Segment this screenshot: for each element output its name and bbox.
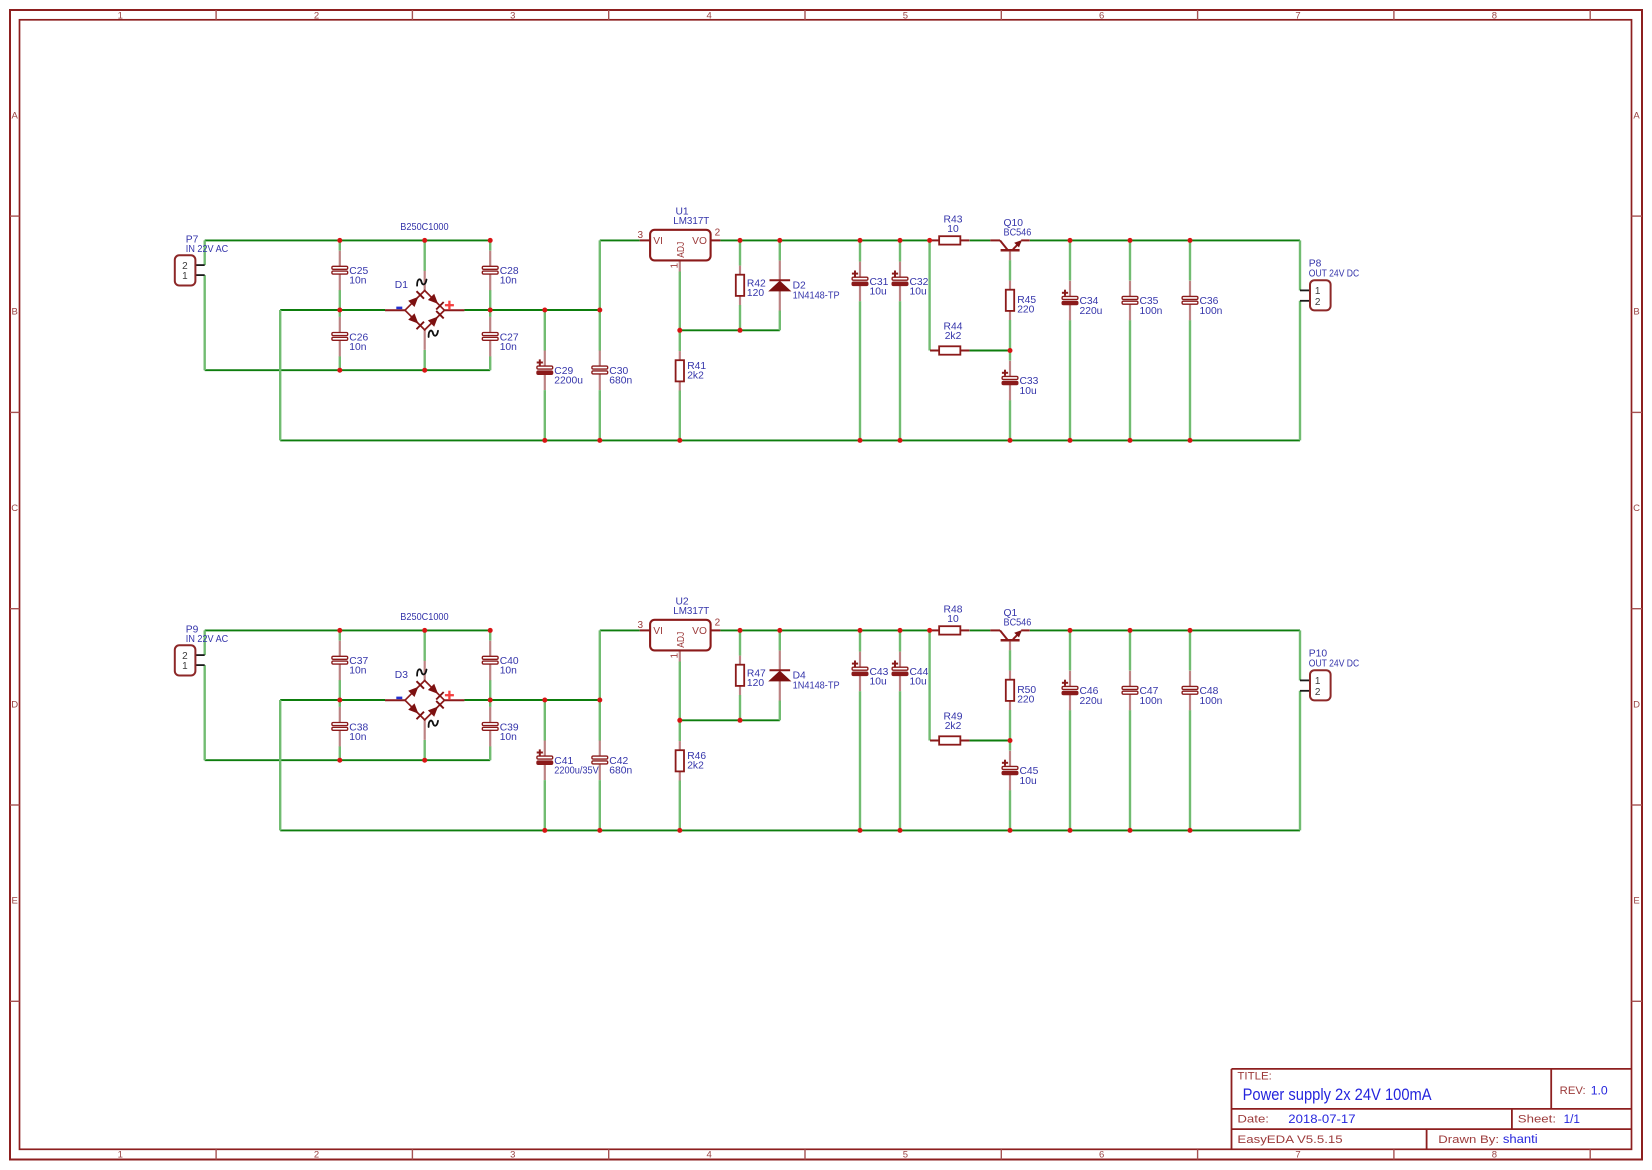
symbol D1 AC squiggle bottom (429, 331, 438, 337)
resistor R49 (930, 736, 969, 744)
wire P9 pin2 riser (203, 630, 205, 655)
wire R49 branch riser (928, 630, 930, 740)
wire C35 bottom lead (1129, 320, 1131, 440)
transistor Q10 (NPN BC546) (990, 240, 1029, 260)
svg-text:EasyEDA V5.5.15: EasyEDA V5.5.15 (1237, 1134, 1342, 1146)
label C48 name/value (1200, 686, 1223, 707)
wire C39 bottom lead (489, 746, 491, 760)
label C36 name/value (1200, 296, 1223, 317)
wire P10 pin1 drop (1299, 630, 1301, 680)
svg-text:D: D (11, 699, 18, 710)
svg-text:1: 1 (669, 263, 680, 269)
svg-text:100n: 100n (1200, 306, 1223, 317)
label D1 minus sign (396, 307, 402, 310)
junction on VO rail at (929.6,630.4) (927, 628, 932, 633)
wire P7 pin2 riser (203, 240, 205, 265)
svg-text:100n: 100n (1140, 696, 1163, 707)
capacitor C35 (1122, 281, 1138, 321)
capacitor C34 (electrolytic) (1062, 281, 1078, 321)
capacitor C28 (482, 251, 498, 291)
wire C34 bottom lead (1069, 320, 1071, 440)
capacitor C48 (1182, 671, 1198, 711)
svg-text:10n: 10n (500, 732, 517, 743)
label R50 name/value (1017, 685, 1036, 706)
label R48 name/value (944, 604, 963, 625)
junction on mid rail at (544.8,310.0) (542, 308, 547, 313)
svg-text:680n: 680n (609, 376, 632, 387)
wire C32 bottom lead (899, 301, 901, 440)
junction on VOUT rail at (1190,630.4) (1188, 628, 1193, 633)
svg-text:10n: 10n (349, 732, 366, 743)
label R42 name/value (747, 278, 766, 299)
label C31 name/value (870, 277, 889, 298)
svg-text:5: 5 (903, 1150, 908, 1161)
junction on VO rail at (860,630.4) (858, 628, 863, 633)
junction on GND rail at (1070,440.4) (1068, 438, 1073, 443)
wire BR-minus to GND drop (279, 700, 281, 830)
svg-text:7: 7 (1295, 10, 1300, 21)
junction on ADJ rail at (740,720.3) (738, 718, 743, 723)
svg-text:IN 22V AC: IN 22V AC (186, 244, 229, 255)
junction on VO rail at (929.6,240.4) (927, 238, 932, 243)
capacitor C39 (482, 707, 498, 747)
svg-text:1N4148-TP: 1N4148-TP (793, 290, 840, 301)
wire C37 top lead (339, 630, 341, 640)
wire C35 top lead (1129, 240, 1131, 280)
wire C31 bottom lead (859, 301, 861, 440)
wire C36 top lead (1189, 240, 1191, 280)
svg-text:Power supply 2x 24V 100mA: Power supply 2x 24V 100mA (1243, 1085, 1433, 1104)
wire C27 bottom lead (489, 356, 491, 370)
label R44 name/value (944, 322, 963, 343)
svg-text:REV:: REV: (1560, 1085, 1586, 1097)
wire net GND bottom rail (280, 829, 1300, 831)
wire P8 pin1 drop (1299, 240, 1301, 290)
junction on base node at (1010,350.5) (1008, 348, 1013, 353)
svg-text:10n: 10n (500, 666, 517, 677)
label D1 plus sign (445, 301, 454, 310)
resistor R41 (676, 351, 684, 390)
junction on mid rail at (490.2,700.0) (488, 698, 493, 703)
label C37 name/value (349, 656, 368, 677)
svg-text:1N4148-TP: 1N4148-TP (793, 680, 840, 691)
junction on GND rail at (544.8,830.4) (542, 828, 547, 833)
resistor R43 (930, 236, 969, 244)
junction on VO rail at (779.8,240.4) (777, 238, 782, 243)
svg-text:1: 1 (182, 271, 188, 282)
svg-text:220u: 220u (1080, 306, 1103, 317)
wire C44 top lead (899, 630, 901, 651)
svg-text:2: 2 (314, 1150, 319, 1161)
junction on GND rail at (1010,830.4) (1008, 828, 1013, 833)
svg-text:8: 8 (1492, 1150, 1497, 1161)
svg-text:VI: VI (653, 626, 663, 637)
wire net VREG R48 to Q1 collector (970, 629, 991, 631)
capacitor C30 (592, 351, 608, 391)
connector P9 pin 2 stub (195, 654, 204, 656)
svg-text:D1: D1 (395, 280, 408, 291)
svg-text:A: A (12, 111, 19, 122)
wire net VRAW mid rail right (D3 + to C41/C42) (464, 699, 600, 701)
wire D3 bottom AC lead (424, 740, 426, 760)
label D3 minus sign (396, 697, 402, 700)
wire C45 bottom lead (1009, 790, 1011, 830)
wire C25 top lead (339, 240, 341, 250)
capacitor C29 (electrolytic) (537, 351, 553, 391)
wire R42 top lead (739, 240, 741, 265)
wire P9 pin1 drop (203, 665, 205, 760)
wire net VRAW link to U2 VI (600, 629, 640, 631)
connector P9 pin 1 stub (195, 664, 204, 666)
wire base node to C33 (1009, 351, 1011, 361)
junction on GND rail at (599.8,830.4) (597, 828, 602, 833)
wire C25/C26 mid link (339, 290, 341, 317)
svg-text:C: C (1633, 503, 1640, 514)
wire C40 top lead (489, 630, 491, 640)
label D3 plus sign (445, 691, 454, 700)
svg-text:2: 2 (1315, 297, 1321, 308)
junction on GND rail at (679.8,830.4) (677, 828, 682, 833)
wire Q1 base to R50 (1009, 650, 1011, 671)
wire P10 pin2 to GND (1299, 691, 1301, 831)
svg-text:220: 220 (1017, 695, 1034, 706)
wire net base divider R49 right link (970, 740, 1011, 742)
wire C28 top lead (489, 240, 491, 250)
wire net VREG VO rail (U1 VO to R43) (720, 239, 929, 241)
label C39 name/value (500, 722, 519, 743)
connector P10 pin 1 stub (1300, 679, 1310, 681)
symbol D1 AC squiggle top (417, 279, 426, 285)
connector P8 pin 1 stub (1300, 289, 1310, 291)
wire C37/C38 mid link (339, 680, 341, 707)
wire Q10 base to R45 (1009, 260, 1011, 281)
svg-text:3: 3 (510, 10, 515, 21)
border row tick marks (10, 216, 1642, 1001)
junction on VOUT rail at (1070,240.4) (1068, 238, 1073, 243)
connector P8 pin 2 stub (1300, 300, 1310, 302)
resistor R50 (1006, 671, 1014, 710)
label C30 name/value (609, 366, 632, 387)
svg-text:Sheet:: Sheet: (1518, 1114, 1556, 1126)
capacitor C40 (482, 641, 498, 681)
svg-text:1/1: 1/1 (1564, 1112, 1581, 1126)
resistor R42 (736, 266, 744, 305)
label R49 name/value (944, 712, 963, 733)
wire D4 top lead (779, 630, 781, 650)
svg-text:10u: 10u (1020, 386, 1037, 397)
wire C29 top lead (544, 310, 546, 351)
wire R42 bottom lead (739, 305, 741, 330)
svg-text:1: 1 (118, 1150, 123, 1161)
capacitor C45 (electrolytic) (1002, 751, 1018, 791)
svg-text:10n: 10n (500, 276, 517, 287)
connector P10 body (1310, 670, 1331, 700)
wire C40/C39 mid link (489, 680, 491, 707)
svg-text:10u: 10u (870, 677, 887, 688)
junction on lower-left rail at (339.8,760.2) (337, 758, 342, 763)
junction on mid rail at (599.8,310.0) (597, 308, 602, 313)
junction on GND rail at (1010,440.4) (1008, 438, 1013, 443)
connector P9 body (175, 645, 196, 675)
svg-text:7: 7 (1295, 1150, 1300, 1161)
svg-text:D: D (1633, 699, 1640, 710)
junction on VO rail at (900,240.4) (898, 238, 903, 243)
svg-text:2k2: 2k2 (687, 371, 704, 382)
wire C36 bottom lead (1189, 320, 1191, 440)
junction on GND rail at (1130,440.4) (1128, 438, 1133, 443)
svg-text:1: 1 (1315, 286, 1321, 297)
wire R41 top lead (679, 330, 681, 351)
junction on VOUT rail at (1130,630.4) (1128, 628, 1133, 633)
label C35 name/value (1140, 296, 1163, 317)
capacitor C33 (electrolytic) (1002, 361, 1018, 401)
wire R41 bottom lead (679, 390, 681, 440)
wire net AC1 top rail (P7 pin2 to bridge/C25/C28) (205, 239, 491, 241)
svg-text:5: 5 (903, 10, 908, 21)
wire net ADJ rail (U1 ADJ to R42/D2) (680, 329, 780, 331)
svg-text:10n: 10n (349, 276, 366, 287)
wire net BR-minus mid rail left (D1 - side) (280, 309, 385, 311)
junction on AC1 rail at (424.7,630.4) (422, 628, 427, 633)
wire net AC2 lower-left rail (P7 pin1 to bridge/C26/C27) (205, 369, 491, 371)
junction on base node at (1010,740.5) (1008, 738, 1013, 743)
svg-text:Date:: Date: (1237, 1114, 1269, 1126)
wire net VOUT Q10 emitter rail to P8 (1030, 239, 1300, 241)
svg-text:10n: 10n (349, 342, 366, 353)
svg-text:1: 1 (669, 653, 680, 659)
wire C28/C27 mid link (489, 290, 491, 317)
wire C32 top lead (899, 240, 901, 261)
capacitor C42 (592, 741, 608, 781)
junction on GND rail at (1070,830.4) (1068, 828, 1073, 833)
junction on mid rail at (339.8,700.0) (337, 698, 342, 703)
junction on VO rail at (900,630.4) (898, 628, 903, 633)
resistor R44 (930, 346, 969, 354)
svg-text:1: 1 (118, 10, 123, 21)
regulator U2 LM317T body and pins (640, 620, 721, 662)
svg-text:VO: VO (692, 236, 707, 247)
svg-text:B250C1000: B250C1000 (400, 612, 449, 623)
svg-text:E: E (1633, 896, 1639, 907)
label D2 name/value (793, 281, 840, 302)
wire D2 bottom lead (779, 311, 781, 331)
capacitor C41 (electrolytic) (537, 741, 553, 781)
wire base node to C45 (1009, 741, 1011, 751)
wire net VREG VO rail (U2 VO to R48) (720, 629, 929, 631)
wire C48 top lead (1189, 630, 1191, 670)
regulator U1 LM317T body and pins (640, 230, 721, 272)
junction on AC1 rail at (490.2,630.4) (488, 628, 493, 633)
capacitor C27 (482, 317, 498, 357)
title block grid lines (1232, 1069, 1632, 1149)
svg-text:100n: 100n (1140, 306, 1163, 317)
svg-text:2: 2 (715, 228, 721, 239)
label R46 name/value (687, 751, 706, 772)
resistor R46 (676, 741, 684, 780)
wire R45 bottom to base node (1009, 320, 1011, 351)
svg-text:B: B (1633, 307, 1639, 318)
label R43 name/value (944, 214, 963, 235)
wire C41 bottom lead (544, 780, 546, 830)
junction on GND rail at (544.8,440.4) (542, 438, 547, 443)
svg-text:120: 120 (747, 288, 764, 299)
svg-text:2k2: 2k2 (687, 761, 704, 772)
svg-text:C: C (11, 503, 18, 514)
wire net VOUT Q1 emitter rail to P10 (1030, 629, 1300, 631)
junction on mid rail at (599.8,700.0) (597, 698, 602, 703)
transistor Q1 (NPN BC546) (990, 630, 1029, 650)
wire D1 top AC lead (424, 240, 426, 271)
wire R47 top lead (739, 630, 741, 655)
svg-text:1: 1 (1315, 676, 1321, 687)
wire net ADJ rail (U2 ADJ to R47/D4) (680, 719, 780, 721)
svg-text:10n: 10n (349, 666, 366, 677)
symbol D3 AC squiggle top (417, 669, 426, 675)
label C33 name/value (1020, 376, 1039, 397)
label C29 name/value (554, 366, 583, 387)
label C45 name/value (1020, 766, 1039, 787)
svg-text:OUT 24V DC: OUT 24V DC (1309, 658, 1360, 669)
label C26 name/value (349, 332, 368, 353)
wire C41 top lead (544, 700, 546, 741)
junction on GND rail at (1130,830.4) (1128, 828, 1133, 833)
junction on ADJ rail at (679.8,720.3) (677, 718, 682, 723)
junction on mid rail at (544.8,700.0) (542, 698, 547, 703)
connector P7 pin 2 stub (195, 264, 204, 266)
wire C46 bottom lead (1069, 710, 1071, 830)
svg-text:shanti: shanti (1503, 1132, 1538, 1146)
label C32 name/value (910, 277, 929, 298)
svg-text:TITLE:: TITLE: (1237, 1070, 1272, 1082)
label C44 name/value (910, 667, 929, 688)
capacitor C31 (electrolytic) (852, 262, 868, 302)
svg-text:A: A (1633, 111, 1640, 122)
wire R46 top lead (679, 720, 681, 741)
junction on AC1 rail at (339.8,240.4) (337, 238, 342, 243)
junction on lower-left rail at (339.8,370.2) (337, 368, 342, 373)
resistor R48 (930, 626, 969, 634)
wire C43 top lead (859, 630, 861, 651)
svg-text:220u: 220u (1080, 696, 1103, 707)
wire C33 bottom lead (1009, 400, 1011, 440)
wire BR-minus to GND drop (279, 310, 281, 440)
wire net AC2 lower-left rail (P9 pin1 to bridge/C38/C39) (205, 759, 491, 761)
svg-text:10: 10 (947, 224, 959, 235)
wire C30 bottom lead (599, 390, 601, 440)
connector P7 body (175, 255, 196, 285)
svg-text:10u: 10u (910, 677, 927, 688)
wire D3 top AC lead (424, 630, 426, 661)
symbol D3 AC squiggle bottom (429, 721, 438, 727)
svg-text:10u: 10u (870, 287, 887, 298)
junction on GND rail at (900,440.4) (898, 438, 903, 443)
capacitor C25 (332, 251, 348, 291)
junction on VO rail at (740,630.4) (738, 628, 743, 633)
svg-text:B: B (12, 307, 18, 318)
capacitor C37 (332, 641, 348, 681)
label C34 name/value (1080, 296, 1103, 317)
wire C42 top lead (599, 700, 601, 741)
wire VRAW riser to U2 VI (599, 630, 601, 700)
label R47 name/value (747, 668, 766, 689)
border row letters A-E (11, 111, 1640, 907)
svg-text:2200u/35V: 2200u/35V (554, 766, 599, 777)
wire R44 branch riser (928, 240, 930, 350)
wire P7 pin1 drop (203, 275, 205, 370)
svg-text:2k2: 2k2 (945, 331, 962, 342)
svg-text:BC546: BC546 (1004, 228, 1032, 239)
svg-text:D3: D3 (395, 670, 408, 681)
junction on AC1 rail at (424.7,240.4) (422, 238, 427, 243)
junction on lower-left rail at (424.7,760.2) (422, 758, 427, 763)
junction on GND rail at (1190,440.4) (1188, 438, 1193, 443)
wire P8 pin2 to GND (1299, 301, 1301, 441)
wire C44 bottom lead (899, 691, 901, 830)
svg-text:6: 6 (1099, 1150, 1104, 1161)
capacitor C47 (1122, 671, 1138, 711)
wire C31 top lead (859, 240, 861, 261)
svg-text:1: 1 (182, 661, 188, 672)
wire C47 bottom lead (1129, 710, 1131, 830)
junction on mid rail at (339.8,310.0) (337, 308, 342, 313)
label C41 name/value (554, 756, 599, 777)
svg-text:2200u: 2200u (554, 376, 583, 387)
svg-text:Drawn By:: Drawn By: (1438, 1134, 1499, 1146)
wire C34 top lead (1069, 240, 1071, 280)
wire net VRAW mid rail right (D1 + to C29/C30) (464, 309, 600, 311)
junction on AC1 rail at (339.8,630.4) (337, 628, 342, 633)
label C42 name/value (609, 756, 632, 777)
label R41 name/value (687, 361, 706, 382)
label C38 name/value (349, 722, 368, 743)
label C25 name/value (349, 266, 368, 287)
svg-text:2: 2 (715, 618, 721, 629)
wire C38 bottom lead (339, 746, 341, 760)
junction on VOUT rail at (1070,630.4) (1068, 628, 1073, 633)
junction on VO rail at (860,240.4) (858, 238, 863, 243)
svg-text:E: E (12, 896, 18, 907)
wire C42 bottom lead (599, 780, 601, 830)
svg-text:IN 22V AC: IN 22V AC (186, 634, 229, 645)
wire C46 top lead (1069, 630, 1071, 670)
wire U2 ADJ drop (679, 662, 681, 721)
capacitor C32 (electrolytic) (892, 262, 908, 302)
label C43 name/value (870, 667, 889, 688)
svg-text:BC546: BC546 (1004, 618, 1032, 629)
wire R50 bottom to base node (1009, 710, 1011, 741)
label C47 name/value (1140, 686, 1163, 707)
svg-text:4: 4 (706, 1150, 711, 1161)
svg-text:8: 8 (1492, 10, 1497, 21)
junction on VOUT rail at (1130,240.4) (1128, 238, 1133, 243)
svg-text:680n: 680n (609, 766, 632, 777)
diode D4 (770, 651, 791, 701)
label C46 name/value (1080, 686, 1103, 707)
svg-text:3: 3 (637, 230, 643, 241)
svg-text:10u: 10u (910, 287, 927, 298)
svg-text:2018-07-17: 2018-07-17 (1288, 1112, 1355, 1126)
wire D4 bottom lead (779, 701, 781, 721)
svg-text:220: 220 (1017, 305, 1034, 316)
wire C29 bottom lead (544, 390, 546, 440)
wire net BR-minus mid rail left (D3 - side) (280, 699, 385, 701)
junction on lower-left rail at (424.7,370.2) (422, 368, 427, 373)
junction on GND rail at (860,440.4) (858, 438, 863, 443)
connector P10 pin 2 stub (1300, 690, 1310, 692)
connector P7 pin 1 stub (195, 274, 204, 276)
wire net VRAW link to U1 VI (600, 239, 640, 241)
capacitor C36 (1182, 281, 1198, 321)
